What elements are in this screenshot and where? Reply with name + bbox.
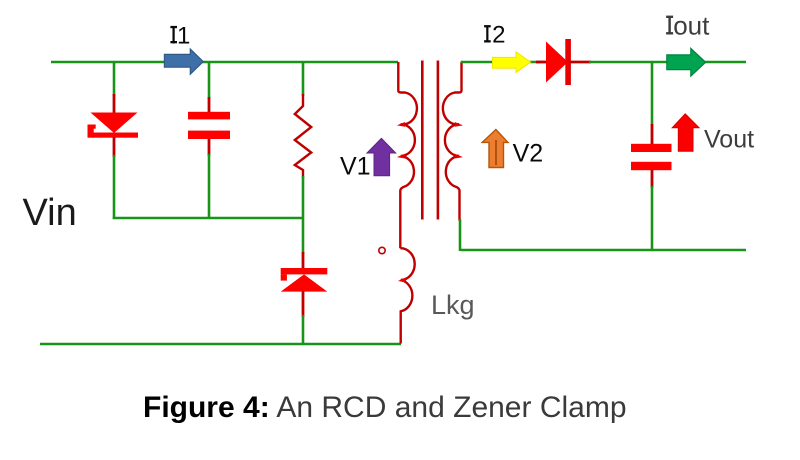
wire: capacitor branch lower segment xyxy=(208,154,211,219)
inductor Lkg winding xyxy=(400,248,414,343)
resistor R1 xyxy=(295,94,311,178)
arrow I2 xyxy=(493,52,531,73)
wire: zener branch lower segment xyxy=(113,155,116,219)
wire: capacitor branch upper segment xyxy=(208,62,211,99)
capacitor C2 lead lower xyxy=(651,170,654,188)
secondary winding cusp tip 1 xyxy=(455,122,463,127)
diode D3 xyxy=(546,39,571,85)
transformer T1 secondary winding xyxy=(443,62,462,221)
zener D1 lead lower xyxy=(113,137,116,157)
wire: zener branch upper segment xyxy=(113,62,116,96)
svg-text:Figure 4: An RCD and Zener Cla: Figure 4: An RCD and Zener Clamp xyxy=(143,391,627,424)
svg-text:Iout: Iout xyxy=(666,11,710,41)
diode D3 lead right xyxy=(570,61,591,64)
svg-text:V2: V2 xyxy=(513,140,544,168)
wire: resistor branch upper segment xyxy=(302,62,305,96)
diode D2 xyxy=(281,268,328,292)
svg-text:V1: V1 xyxy=(340,153,371,181)
wire: diode branch lower segment xyxy=(302,315,305,345)
wire: mid horizontal rail xyxy=(113,217,304,220)
diode D2 lead upper xyxy=(302,252,305,269)
diode D3 lead left xyxy=(536,61,547,64)
label I2 xyxy=(484,22,507,49)
svg-text:Lkg: Lkg xyxy=(431,290,475,320)
label I1 xyxy=(170,22,190,49)
arrow Vout xyxy=(672,114,699,151)
wire: resistor bottom to diode segment xyxy=(302,176,305,254)
primary winding cusp tip 1 xyxy=(397,122,405,127)
svg-text:Vout: Vout xyxy=(704,126,754,154)
transformer T1 core line left xyxy=(421,61,424,220)
inductor polarity dot xyxy=(379,247,385,253)
secondary winding cusp tip 2 xyxy=(455,154,463,159)
transformer T1 primary winding xyxy=(398,62,417,248)
capacitor C2 lead upper xyxy=(651,124,654,145)
capacitor C2 xyxy=(631,144,672,170)
arrow Iout xyxy=(667,48,706,76)
wire: secondary top rail xyxy=(461,61,543,64)
wire: output cap branch upper segment xyxy=(651,62,654,126)
primary winding cusp tip 2 xyxy=(397,154,405,159)
wire: bottom-right rail xyxy=(461,249,746,252)
arrow V2 xyxy=(482,130,508,168)
capacitor C1 lead lower xyxy=(208,139,211,156)
diode D2 lead lower xyxy=(302,291,305,317)
zener D1 xyxy=(88,113,139,138)
arrow V1 xyxy=(367,138,396,175)
wire: secondary bottom segment xyxy=(459,219,462,251)
capacitor C1 xyxy=(188,112,230,139)
svg-text:Vin: Vin xyxy=(23,192,77,234)
inductor Lkg cusp tip xyxy=(398,278,406,283)
capacitor C1 lead upper xyxy=(208,97,211,113)
transformer T1 core line right xyxy=(437,61,440,220)
wire: top-right rail xyxy=(589,61,746,64)
wire: bottom-left rail xyxy=(40,343,401,346)
label Iout xyxy=(666,11,710,41)
wire: output cap branch lower segment xyxy=(651,186,654,251)
wire: top-left rail xyxy=(51,61,398,64)
zener D1 lead upper xyxy=(113,94,116,113)
arrow I1 xyxy=(164,49,203,74)
